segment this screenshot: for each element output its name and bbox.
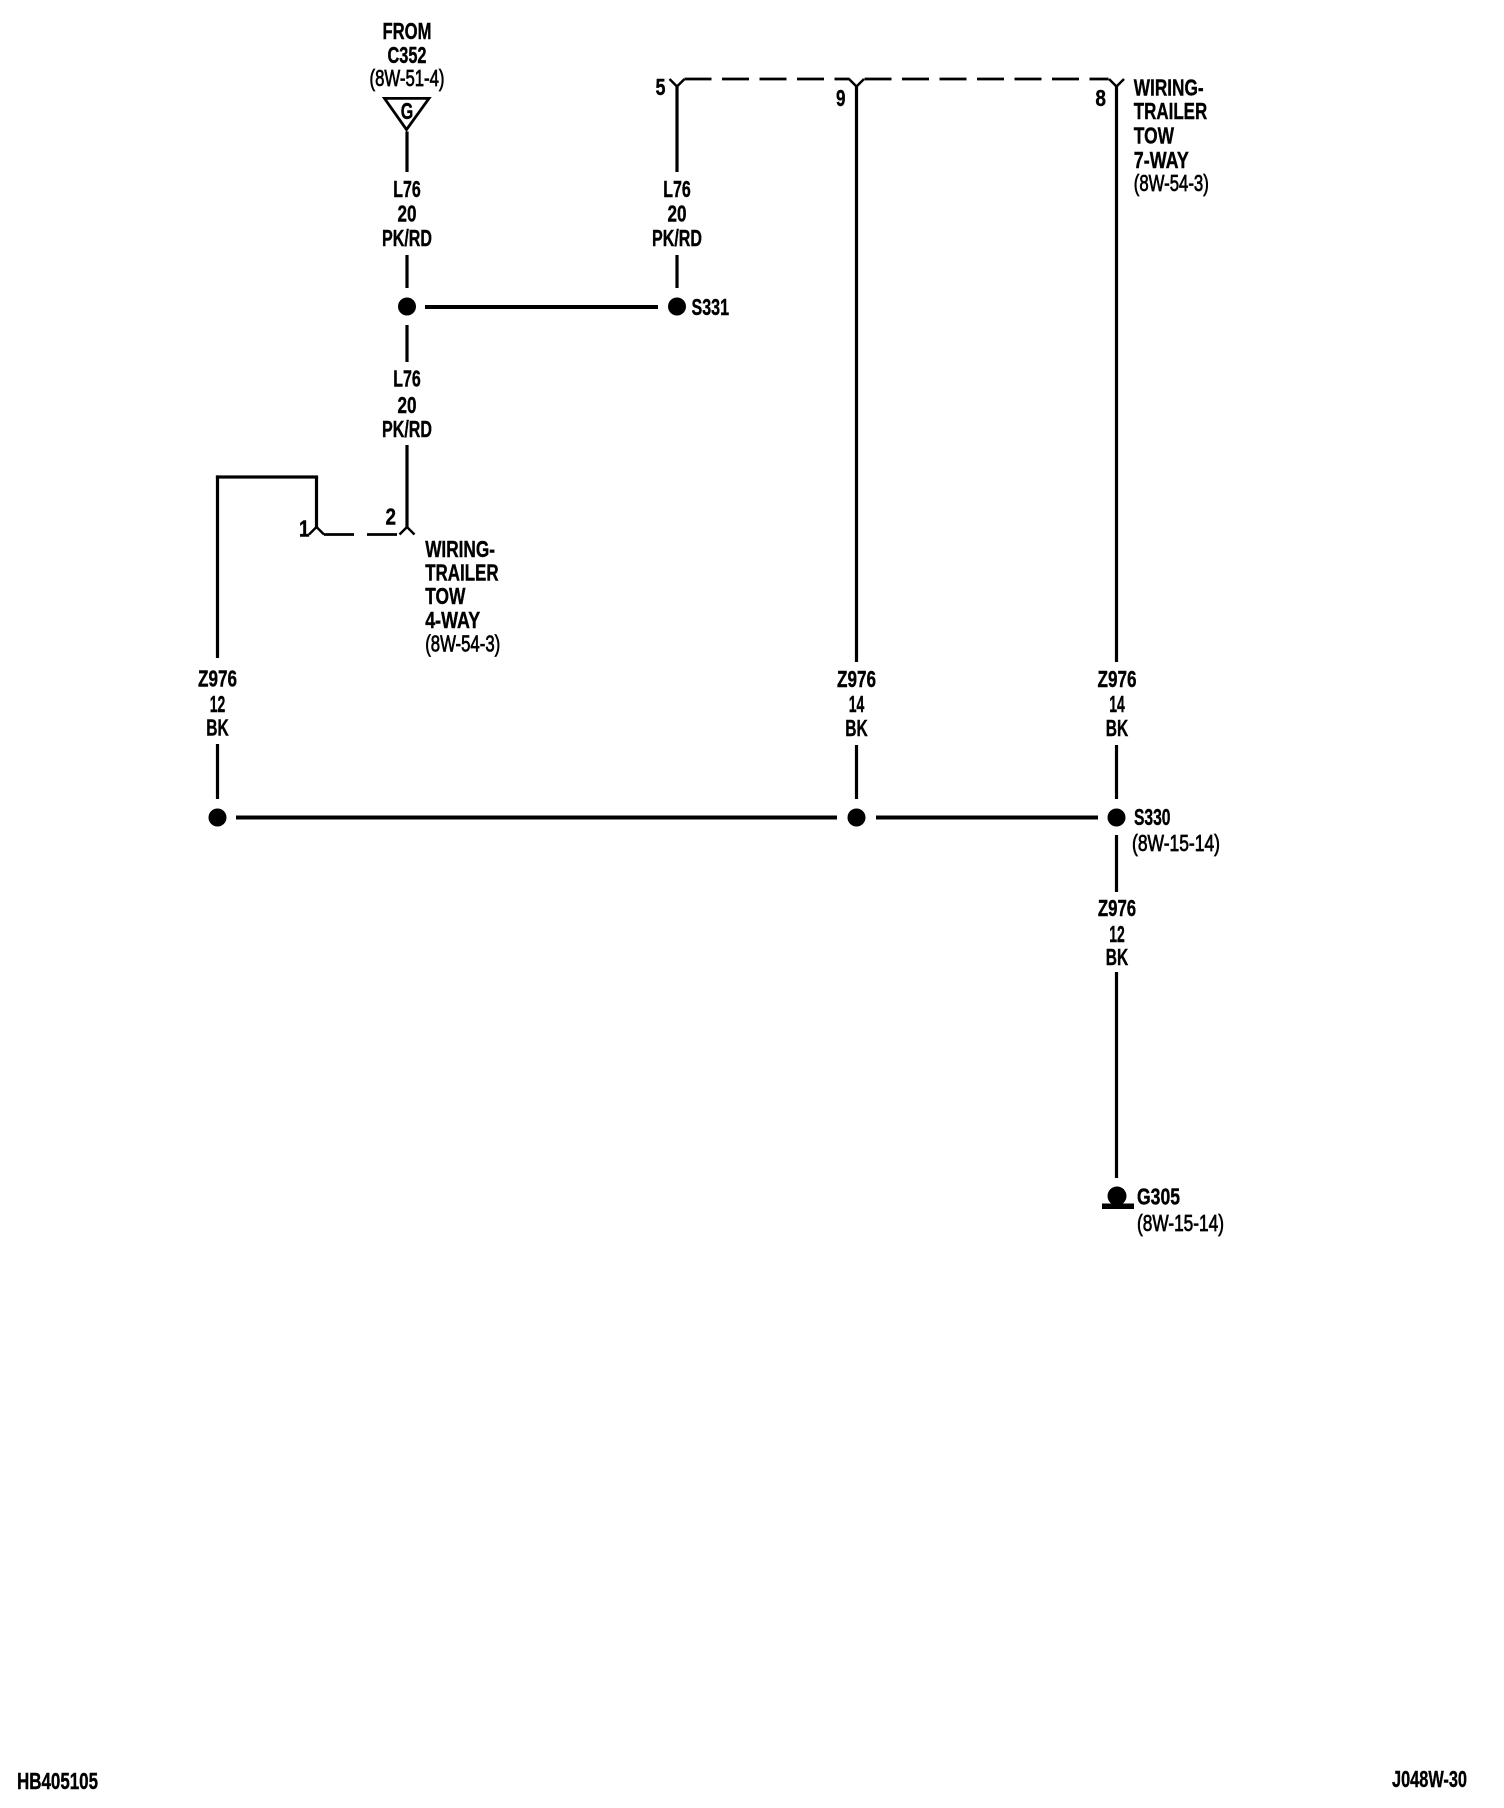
svg-text:8: 8 [1095,85,1106,111]
connector C352 triangle G symbol [385,98,430,130]
svg-text:BK: BK [1106,944,1129,970]
label WIRING-TRAILER TOW 7-WAY [1134,74,1209,196]
connector pin 5 (7-way) [656,74,685,100]
wire label down to pin 2 [405,445,408,528]
svg-text:L76: L76 [663,176,691,202]
dashed connector line pin9 to pin8 [865,78,1109,81]
svg-text:WIRING-: WIRING- [425,536,495,562]
svg-text:BK: BK [1106,715,1129,741]
dashed connector line pin5 to pin9 [685,78,850,81]
svg-text:Z976: Z976 [837,666,876,692]
svg-text:S331: S331 [692,294,730,320]
svg-text:1: 1 [299,516,310,542]
wire label Z976 14 BK (middle) [837,666,876,741]
junction node dot (left bus) [209,809,227,827]
svg-text:HB405105: HB405105 [17,1768,98,1794]
label WIRING-TRAILER TOW 4-WAY [425,536,500,657]
svg-text:G305: G305 [1137,1184,1180,1210]
svg-text:20: 20 [398,392,417,418]
splice S330 [1108,804,1221,856]
svg-text:TOW: TOW [1134,123,1174,149]
wire label L76 20 PK/RD (upper left) [382,176,432,251]
wire label to S331 dot [675,255,678,288]
svg-text:WIRING-: WIRING- [1134,74,1204,100]
svg-text:J048W-30: J048W-30 [1392,1766,1467,1792]
wire label Z976 12 BK (bottom right) [1098,895,1136,970]
wire pin 1 up [315,477,318,527]
svg-text:5: 5 [656,74,666,100]
wire label Z976 12 BK (left) [198,666,237,741]
junction node dot (L76 splice left) [398,298,416,316]
svg-text:12: 12 [210,691,226,717]
wire ground bus right segment [876,816,1098,820]
wire pin 9 down to label [855,85,858,662]
svg-text:PK/RD: PK/RD [652,225,702,251]
connector pin 1 (4-way) [299,516,324,542]
svg-text:L76: L76 [393,366,421,392]
svg-text:TRAILER: TRAILER [425,560,499,586]
wire from C352 triangle down [405,132,408,173]
svg-text:TOW: TOW [425,583,465,609]
wire label L76 20 PK/RD (middle) [382,366,432,443]
svg-text:L76: L76 [393,176,421,202]
dashed connector line pin1 to pin2 [324,533,399,536]
wire label down to ground [1115,972,1118,1178]
svg-text:14: 14 [849,691,865,717]
svg-text:Z976: Z976 [1098,666,1137,692]
wire to junction [405,255,408,288]
svg-text:9: 9 [836,85,846,111]
svg-text:Z976: Z976 [198,666,237,692]
svg-text:(8W-54-3): (8W-54-3) [425,631,500,657]
junction node dot (middle bus) [848,809,866,827]
wire right label to S330 [1115,745,1118,799]
svg-text:PK/RD: PK/RD [382,416,432,442]
svg-text:FROM: FROM [383,18,432,44]
svg-text:20: 20 [668,201,687,227]
wire pin5 down to label [675,85,678,172]
connector pin 8 (7-way) [1095,79,1124,111]
ground G305 [1102,1184,1224,1237]
wire label Z976 14 BK (right) [1098,666,1137,741]
svg-text:(8W-54-3): (8W-54-3) [1134,170,1209,196]
wire ground bus left segment [236,816,837,820]
wire pin 8 down to label [1115,85,1118,662]
wire S330 down [1115,835,1118,892]
svg-text:(8W-15-14): (8W-15-14) [1137,1210,1224,1236]
wire horizontal junction to S331 [425,305,658,309]
svg-text:(8W-15-14): (8W-15-14) [1132,830,1220,856]
svg-text:20: 20 [398,201,417,227]
splice S331 [668,294,729,320]
svg-text:BK: BK [206,715,229,741]
svg-text:G: G [401,98,414,124]
svg-text:BK: BK [845,715,868,741]
wire label L76 20 PK/RD (upper right) [652,176,702,251]
svg-text:14: 14 [1109,691,1125,717]
connector pin 9 (7-way) [836,79,864,111]
wire horizontal corner [216,475,318,478]
wire junction down to label (x 407) [405,325,408,362]
node FROM C352 label [370,18,445,91]
connector pin 2 (4-way) [386,504,415,535]
svg-text:S330: S330 [1134,804,1171,830]
wire left vertical down [216,475,219,658]
wire middle label to dot [855,745,858,799]
svg-text:4-WAY: 4-WAY [425,607,480,633]
svg-text:2: 2 [386,504,397,530]
svg-text:TRAILER: TRAILER [1134,98,1208,124]
svg-text:(8W-51-4): (8W-51-4) [370,65,445,91]
svg-text:PK/RD: PK/RD [382,225,432,251]
wire left label to dot [216,744,219,799]
svg-text:Z976: Z976 [1098,895,1136,921]
